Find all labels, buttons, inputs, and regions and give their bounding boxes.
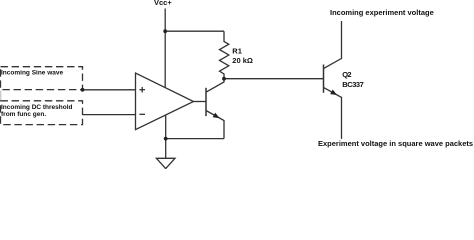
svg-text:Incoming Sine wave: Incoming Sine wave — [1, 69, 64, 76]
svg-text:Vcc+: Vcc+ — [154, 0, 172, 7]
svg-text:Q2: Q2 — [342, 70, 351, 79]
svg-text:BC337: BC337 — [342, 80, 364, 89]
svg-text:Experiment voltage in square w: Experiment voltage in square wave packet… — [318, 139, 473, 148]
svg-text:Incoming DC threshold: Incoming DC threshold — [1, 104, 73, 111]
svg-text:20 kΩ: 20 kΩ — [232, 56, 253, 65]
svg-text:from func gen.: from func gen. — [1, 111, 46, 118]
svg-text:Incoming experiment voltage: Incoming experiment voltage — [330, 8, 434, 17]
svg-text:R1: R1 — [232, 47, 242, 56]
